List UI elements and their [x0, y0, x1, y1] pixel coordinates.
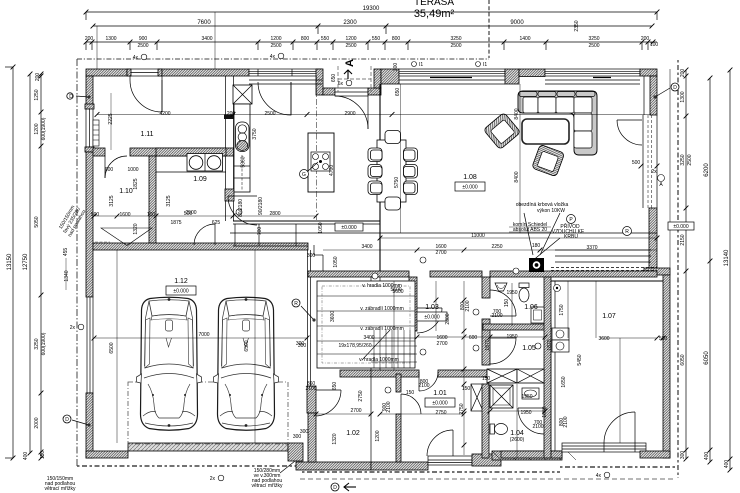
- svg-text:výkon 10KW: výkon 10KW: [537, 208, 565, 214]
- svg-text:200: 200: [35, 73, 41, 82]
- svg-text:6050: 6050: [680, 354, 686, 365]
- door 1.09/corridor: [228, 196, 257, 225]
- big living room window 1: [399, 69, 505, 78]
- svg-text:1950: 1950: [520, 410, 531, 416]
- svg-text:500: 500: [632, 160, 641, 166]
- svg-text:455: 455: [63, 248, 69, 257]
- svg-text:1650: 1650: [561, 376, 567, 387]
- svg-text:900: 900: [139, 36, 148, 42]
- marker R stairs: [292, 299, 316, 322]
- section A bottom: [344, 483, 356, 491]
- living room east glass wall: [643, 115, 657, 208]
- svg-text:5050: 5050: [34, 216, 40, 227]
- svg-text:200: 200: [641, 36, 650, 42]
- dim line above garage wall: [92, 214, 319, 219]
- svg-text:4700: 4700: [329, 165, 335, 176]
- svg-text:1.07: 1.07: [602, 313, 616, 320]
- window 1.07 south: [562, 443, 646, 452]
- svg-text:300: 300: [293, 434, 302, 440]
- svg-text:6x: 6x: [338, 81, 344, 87]
- svg-text:1300: 1300: [680, 91, 686, 102]
- svg-text:I1: I1: [483, 62, 487, 68]
- svg-text:300: 300: [393, 63, 399, 72]
- chairs right: [404, 148, 418, 195]
- svg-text:1870: 1870: [485, 339, 491, 350]
- svg-text:2700: 2700: [435, 250, 446, 256]
- svg-text:±0.000: ±0.000: [673, 224, 688, 230]
- x-box walls above shower: [487, 369, 517, 383]
- wall kitchen/1.11 vertical: [224, 76, 235, 221]
- svg-text:D: D: [673, 85, 677, 91]
- marker R top right: [658, 175, 665, 189]
- toilet 1.04: [490, 424, 508, 435]
- svg-text:4200: 4200: [159, 111, 170, 117]
- svg-text:400: 400: [724, 460, 730, 469]
- svg-text:150: 150: [504, 299, 510, 308]
- svg-text:2100: 2100: [465, 300, 471, 311]
- step band to 1.07: [644, 268, 670, 275]
- svg-text:600: 600: [469, 335, 478, 341]
- svg-text:2x: 2x: [651, 169, 657, 175]
- svg-text:11000: 11000: [471, 233, 485, 239]
- svg-text:3750: 3750: [252, 128, 258, 139]
- svg-text:800: 800: [392, 36, 401, 42]
- svg-text:7600: 7600: [197, 20, 211, 26]
- svg-text:2500: 2500: [687, 154, 693, 165]
- svg-text:80/2180: 80/2180: [238, 199, 244, 217]
- garage double-door V symbol: [95, 228, 152, 246]
- 1.01 south wall: [371, 462, 428, 470]
- 1.04 west wall: [482, 384, 489, 458]
- stair lower-left flight in 1.03: [371, 338, 417, 362]
- G marker: [300, 162, 319, 179]
- svg-text:700: 700: [257, 227, 263, 236]
- door hall to living: [617, 120, 642, 145]
- parking apron dashed: [128, 382, 288, 444]
- svg-text:550: 550: [372, 36, 381, 42]
- svg-text:3125: 3125: [109, 195, 115, 206]
- svg-text:1000: 1000: [127, 167, 138, 173]
- svg-text:400: 400: [704, 452, 710, 461]
- svg-text:1340: 1340: [64, 270, 70, 281]
- svg-text:1.01: 1.01: [433, 390, 447, 397]
- svg-text:1750: 1750: [559, 304, 565, 315]
- svg-text:6500: 6500: [244, 340, 250, 351]
- garage west window band: [87, 297, 93, 393]
- svg-text:500: 500: [91, 212, 100, 218]
- svg-text:±0.000: ±0.000: [424, 315, 439, 321]
- svg-text:1.11: 1.11: [140, 131, 153, 138]
- svg-text:5450: 5450: [577, 354, 583, 365]
- svg-text:±0.000: ±0.000: [173, 289, 188, 295]
- svg-text:1400: 1400: [519, 36, 530, 42]
- dining table: [377, 140, 406, 202]
- svg-text:13140: 13140: [724, 249, 730, 266]
- svg-text:650: 650: [332, 382, 338, 391]
- garage interior dim verticals: [116, 250, 118, 443]
- svg-text:13150: 13150: [7, 253, 13, 270]
- dim scaffolding south block: [314, 281, 620, 458]
- coffee table: [522, 119, 569, 144]
- corridor north wall: [233, 221, 380, 224]
- svg-text:větrací mřížky: větrací mřížky: [251, 483, 283, 489]
- marker D bottom-left: [63, 415, 91, 427]
- left exterior wall: [86, 76, 93, 108]
- svg-text:R: R: [294, 301, 298, 307]
- svg-text:90/2180: 90/2180: [258, 197, 264, 215]
- svg-text:1880: 1880: [542, 406, 548, 417]
- wall pier b: [505, 69, 519, 84]
- svg-text:180: 180: [532, 243, 541, 249]
- entrance recess bottom-left: [323, 88, 335, 95]
- entry south wall: [296, 462, 371, 470]
- svg-text:2x: 2x: [70, 325, 76, 331]
- door 1.10: [105, 156, 127, 178]
- door 1.02 to 1.01: [401, 394, 421, 414]
- chairs left: [368, 148, 382, 195]
- svg-text:625: 625: [212, 220, 221, 226]
- svg-text:1950: 1950: [521, 394, 532, 400]
- terasa label: [414, 0, 489, 58]
- svg-text:150: 150: [40, 451, 46, 460]
- 1.04 south wall corner: [472, 454, 501, 466]
- svg-text:8400: 8400: [514, 108, 520, 119]
- svg-text:8400: 8400: [514, 171, 520, 182]
- svg-text:3250: 3250: [450, 36, 461, 42]
- entrance recess right vertical: [374, 69, 381, 88]
- left bottom corner wall: [86, 393, 93, 458]
- svg-text:2750: 2750: [358, 390, 364, 401]
- interior dim verticals 1.07: [567, 281, 569, 338]
- svg-text:5600: 5600: [390, 287, 401, 293]
- svg-text:7000: 7000: [198, 332, 209, 338]
- svg-text:1.09: 1.09: [193, 176, 207, 183]
- door 1.04: [518, 408, 544, 434]
- small circles top wall: [133, 54, 147, 61]
- top dim line 2 (7600 2300 9000): [91, 20, 655, 34]
- svg-text:2100: 2100: [418, 383, 429, 389]
- svg-text:2750: 2750: [459, 403, 465, 414]
- right dim col 1: [680, 68, 693, 462]
- hall pm0 box: [335, 223, 363, 231]
- washbasin 1.04: [522, 388, 539, 399]
- svg-text:12750: 12750: [23, 253, 29, 270]
- fridge / tall unit column: [227, 104, 250, 192]
- svg-text:2800: 2800: [269, 211, 280, 217]
- section A top: [344, 59, 356, 79]
- corner basin 1.06: [495, 283, 507, 291]
- svg-text:2100: 2100: [563, 416, 569, 427]
- svg-text:2x: 2x: [210, 476, 216, 482]
- car 2: [214, 297, 279, 430]
- svg-text:1.02: 1.02: [346, 430, 360, 437]
- kitchen counter top band: [156, 148, 226, 156]
- svg-text:2350: 2350: [574, 20, 580, 31]
- svg-text:±0.000: ±0.000: [462, 185, 477, 191]
- svg-text:1950: 1950: [506, 290, 517, 296]
- svg-text:3250: 3250: [680, 154, 686, 165]
- svg-text:150: 150: [462, 386, 471, 392]
- chimney flue box: [233, 85, 252, 104]
- entrance recess bottom-right: [368, 88, 381, 95]
- bottom annotations: [251, 461, 295, 489]
- svg-text:2500: 2500: [345, 43, 356, 49]
- svg-text:650: 650: [395, 88, 401, 97]
- door 1.03 to 1.01: [419, 372, 438, 391]
- svg-text:D: D: [69, 94, 73, 100]
- entrance recess left vertical: [316, 69, 323, 95]
- svg-text:2750: 2750: [435, 410, 446, 416]
- svg-text:5750: 5750: [394, 177, 400, 188]
- right wall of 1.07: [663, 275, 670, 458]
- long wall west of 1.07: [544, 277, 551, 458]
- svg-text:9000: 9000: [510, 20, 524, 26]
- svg-text:2500: 2500: [588, 43, 599, 49]
- svg-text:4x: 4x: [133, 55, 139, 61]
- shower 1.04: [490, 385, 513, 408]
- car 1: [137, 297, 202, 430]
- 1.07 west room line: [554, 281, 556, 451]
- toilet 1.06: [519, 283, 529, 302]
- svg-text:1200: 1200: [34, 123, 40, 134]
- left dim col 2 (12750 400): [23, 72, 32, 461]
- svg-text:větrací mřížky: větrací mřížky: [44, 486, 76, 492]
- 1.07 north wall line: [551, 280, 663, 282]
- cabinet 1.06: [531, 307, 544, 323]
- wall top-left segment b: [162, 69, 249, 76]
- svg-text:1050: 1050: [333, 256, 339, 267]
- thin line window 1.11: [110, 93, 112, 150]
- svg-text:2700: 2700: [436, 341, 447, 347]
- svg-text:TERASA: TERASA: [414, 0, 454, 8]
- svg-text:v. zábradlí 1000mm: v. zábradlí 1000mm: [360, 306, 404, 312]
- top dim line 1 (19300): [84, 6, 660, 20]
- svg-text:2700: 2700: [350, 408, 361, 414]
- svg-text:1.03: 1.03: [425, 304, 439, 311]
- chair bottom: [385, 197, 401, 210]
- svg-text:3125: 3125: [166, 195, 172, 206]
- svg-text:300: 300: [307, 253, 316, 259]
- svg-text:2500: 2500: [137, 43, 148, 49]
- svg-text:2500: 2500: [185, 210, 196, 216]
- outer boundary dash-dot top: [77, 58, 489, 60]
- svg-text:2500: 2500: [450, 43, 461, 49]
- svg-text:1.05: 1.05: [522, 345, 536, 352]
- door 1.03 west: [417, 308, 442, 333]
- svg-text:D: D: [65, 417, 69, 423]
- svg-text:1825: 1825: [133, 178, 139, 189]
- svg-text:2250: 2250: [491, 244, 502, 250]
- svg-text:1.12: 1.12: [174, 278, 188, 285]
- marker D right: [653, 83, 679, 99]
- wall 1.11/1.10: [93, 148, 105, 156]
- 1.07 south-east corner: [640, 451, 670, 458]
- svg-text:100: 100: [650, 42, 659, 48]
- svg-text:650: 650: [331, 74, 337, 83]
- svg-text:150: 150: [406, 390, 415, 396]
- svg-text:19300: 19300: [363, 6, 380, 12]
- outer boundary bottom: [77, 465, 302, 467]
- svg-text:1950: 1950: [506, 334, 517, 340]
- svg-text:300: 300: [298, 343, 307, 349]
- svg-text:2100: 2100: [305, 386, 316, 392]
- svg-text:R: R: [625, 229, 629, 235]
- door 1.11 from top: [130, 76, 162, 112]
- svg-text:400: 400: [23, 452, 29, 461]
- svg-text:3250: 3250: [34, 338, 40, 349]
- right dim col 2: [704, 76, 712, 465]
- door 1.07 south: [604, 412, 635, 443]
- left wall annotations: [44, 205, 87, 492]
- svg-text:6200: 6200: [704, 163, 710, 177]
- circle small 1.07: [554, 285, 561, 292]
- svg-text:1200: 1200: [375, 430, 381, 441]
- svg-text:600(1900): 600(1900): [41, 332, 47, 355]
- bath 1.06 west wall: [482, 277, 490, 298]
- svg-text:1320: 1320: [332, 433, 338, 444]
- svg-text:2500: 2500: [264, 111, 275, 117]
- porch canopy dashed: [338, 66, 371, 92]
- svg-text:1600: 1600: [119, 212, 130, 218]
- garage south wall: [86, 451, 128, 458]
- svg-text:1200: 1200: [345, 36, 356, 42]
- svg-text:4x: 4x: [596, 473, 602, 479]
- svg-text:1300: 1300: [105, 36, 116, 42]
- extension line x400: [400, 84, 402, 233]
- wall 1.03/1.01: [340, 370, 419, 377]
- window 1.01 south: [428, 456, 472, 465]
- svg-text:800: 800: [301, 36, 310, 42]
- pergola lines top of 1.07: [551, 245, 657, 271]
- hall/living boundary: [379, 84, 381, 271]
- wall top-right pier a: [381, 69, 399, 84]
- outlet symbols: [236, 209, 541, 393]
- svg-text:2800: 2800: [445, 313, 451, 324]
- svg-text:1.10: 1.10: [119, 188, 133, 195]
- wall 1.02/1.01: [396, 374, 401, 392]
- wall 1.06/1.05: [483, 324, 551, 330]
- svg-text:1250: 1250: [34, 89, 40, 100]
- wall 1.10/1.09 vertical: [149, 156, 156, 246]
- wall garage/stair vertical: [308, 250, 311, 388]
- garage dim line 7000: [92, 332, 310, 347]
- svg-text:300: 300: [680, 451, 686, 460]
- svg-text:5360: 5360: [241, 156, 247, 167]
- svg-text:500: 500: [659, 336, 668, 342]
- svg-text:v. zábradlí 1000mm: v. zábradlí 1000mm: [360, 326, 404, 332]
- svg-text:2300: 2300: [343, 20, 357, 26]
- corner garage/entry: [288, 443, 303, 461]
- top-right corner wall: [640, 69, 657, 76]
- terrace door swing: [258, 82, 291, 115]
- svg-text:6500: 6500: [109, 342, 115, 353]
- svg-text:2100: 2100: [386, 401, 392, 412]
- window in top wall (1.11): [127, 69, 162, 76]
- svg-text:3600: 3600: [598, 336, 609, 342]
- svg-text:±0.000: ±0.000: [432, 401, 447, 407]
- interior dim row y117: [95, 111, 651, 168]
- window sills inside (living): [249, 80, 640, 84]
- garage north wall: [93, 243, 308, 250]
- svg-text:600(1900): 600(1900): [41, 117, 47, 140]
- right boundary dotted: [677, 60, 679, 478]
- svg-text:200: 200: [680, 69, 686, 78]
- svg-text:1320: 1320: [133, 223, 139, 234]
- door 1.05: [490, 338, 516, 364]
- svg-text:2000: 2000: [34, 417, 40, 428]
- svg-text:2100: 2100: [491, 313, 502, 319]
- chair top: [385, 131, 401, 144]
- marker D bottom-center: [331, 483, 339, 491]
- wall top-left segment a: [86, 69, 127, 76]
- svg-text:G: G: [302, 172, 306, 178]
- outer boundary left: [76, 59, 78, 466]
- svg-text:KRBU: KRBU: [564, 234, 578, 240]
- fireplace annotations: [509, 202, 632, 262]
- window/door to terrace (1.09-1.11 area): [249, 69, 322, 76]
- svg-text:6050: 6050: [704, 351, 710, 365]
- dim row y250: [323, 243, 657, 256]
- front door 1.02: [427, 430, 453, 456]
- svg-text:1.08: 1.08: [463, 174, 477, 181]
- right dim col 3 (13140): [724, 68, 732, 473]
- washer/dryer 1.07: [552, 328, 569, 352]
- dim row 11000: [378, 233, 660, 240]
- left dim col 3 (segments): [34, 72, 47, 461]
- corridor step by garage: [314, 245, 323, 271]
- armchair 1: [483, 112, 520, 149]
- pantry partitions near kitchen: [233, 224, 308, 246]
- svg-text:1050: 1050: [318, 222, 324, 233]
- big living room window 2: [519, 69, 545, 77]
- svg-text:100: 100: [147, 212, 156, 218]
- svg-text:I1: I1: [419, 62, 423, 68]
- svg-text:600: 600: [105, 167, 114, 173]
- svg-text:1875: 1875: [170, 220, 181, 226]
- stair right wall: [409, 277, 417, 331]
- svg-text:D: D: [333, 485, 337, 491]
- svg-text:19x178,95/260: 19x178,95/260: [338, 343, 371, 349]
- svg-text:±0.000: ±0.000: [341, 225, 356, 231]
- stove: [187, 154, 223, 172]
- entrance door: [335, 88, 368, 129]
- svg-text:550: 550: [321, 36, 330, 42]
- south corridor wall (hatched): [308, 271, 409, 277]
- door garage/entry: [316, 390, 341, 416]
- svg-text:150: 150: [482, 376, 491, 382]
- top dim line 3 (small): [84, 36, 659, 50]
- svg-text:2100: 2100: [532, 424, 543, 430]
- svg-text:1870: 1870: [547, 339, 553, 350]
- svg-text:200: 200: [85, 36, 94, 42]
- door corridor to garage: [194, 224, 215, 245]
- svg-text:2500: 2500: [270, 43, 281, 49]
- svg-text:4x: 4x: [270, 54, 276, 60]
- marker D left: [67, 93, 91, 100]
- svg-text:2900: 2900: [344, 111, 355, 117]
- living/corridor floor line: [230, 232, 657, 234]
- svg-text:35,49m²: 35,49m²: [414, 8, 455, 20]
- 1.01/1.02 west wall thin: [370, 277, 372, 462]
- armchair 2: [532, 144, 565, 176]
- 1.07 south wall left piece: [501, 451, 562, 458]
- svg-text:2150: 2150: [680, 234, 686, 245]
- svg-text:A: A: [344, 59, 356, 67]
- garage door: [128, 443, 288, 451]
- svg-text:3400: 3400: [361, 244, 372, 250]
- east wall lower segment: [649, 208, 657, 268]
- door 1.06: [490, 290, 516, 316]
